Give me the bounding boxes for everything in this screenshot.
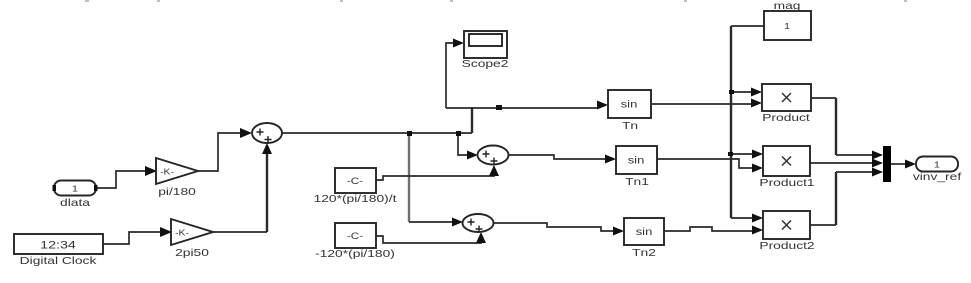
svg-text:-K-: -K- (175, 229, 189, 238)
svg-text:dlata: dlata (60, 197, 90, 209)
svg-text:Tn2: Tn2 (632, 247, 656, 259)
svg-text:2pi50: 2pi50 (175, 247, 209, 259)
svg-text:Product2: Product2 (759, 240, 815, 252)
svg-text:mag: mag (774, 0, 801, 11)
svg-text:-C-: -C- (347, 177, 363, 186)
svg-text:Product: Product (762, 112, 810, 124)
svg-text:1: 1 (934, 161, 940, 170)
svg-text:-120*(pi/180): -120*(pi/180) (315, 248, 395, 260)
svg-text:1: 1 (72, 185, 78, 194)
svg-text:12:34: 12:34 (40, 238, 76, 251)
svg-text:Tn1: Tn1 (625, 176, 649, 188)
svg-text:sin: sin (628, 156, 645, 166)
svg-text:Tn: Tn (622, 120, 638, 132)
svg-text:sin: sin (636, 227, 653, 237)
svg-text:vinv_ref: vinv_ref (913, 171, 962, 183)
svg-text:-C-: -C- (347, 232, 363, 241)
svg-text:-K-: -K- (160, 168, 174, 177)
svg-text:120*(pi/180)/t: 120*(pi/180)/t (314, 193, 398, 205)
svg-text:Digital Clock: Digital Clock (20, 255, 98, 267)
svg-text:pi/180: pi/180 (158, 186, 196, 198)
svg-text:1: 1 (784, 22, 790, 31)
svg-text:Scope2: Scope2 (462, 58, 509, 70)
svg-text:Product1: Product1 (759, 177, 815, 189)
svg-text:sin: sin (621, 100, 638, 110)
